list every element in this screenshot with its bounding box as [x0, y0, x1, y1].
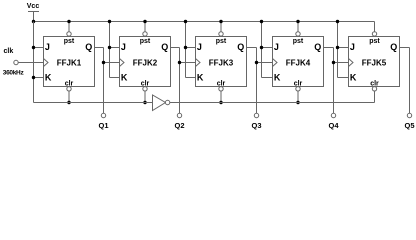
wire J input of FFJK1	[34, 47, 44, 49]
pin bubble clr of FFJK1	[67, 87, 71, 91]
flip-flop FFJK1	[44, 37, 95, 88]
wire Vcc top rail	[34, 21, 375, 23]
node Q2 output terminal	[174, 113, 184, 130]
wire J input of FFJK5	[338, 47, 349, 49]
svg-text:Q1: Q1	[98, 121, 108, 130]
flip-flop FFJK2	[120, 37, 171, 88]
junction clr rail at FFJK2	[143, 101, 146, 104]
pin bubble pst of FFJK4	[296, 32, 300, 36]
svg-text:J: J	[197, 42, 202, 52]
svg-text:J: J	[274, 42, 279, 52]
junction Q2 drop at clock branch	[178, 61, 181, 64]
junction top rail at FFJK4 tie	[260, 20, 263, 23]
pin bubble pst of FFJK2	[143, 32, 147, 36]
wire clr rail left segment	[34, 102, 153, 104]
junction Q3 drop at clock branch	[255, 61, 258, 64]
wire K input of FFJK1	[34, 77, 44, 79]
wire Vcc tie to J/K of FFJK2	[109, 22, 111, 78]
wire J input of FFJK4	[262, 47, 273, 49]
junction Vcc rail at FF1 tie	[32, 20, 35, 23]
pin bubble clr of FFJK4	[296, 87, 300, 91]
wire clr rail right segment	[170, 102, 375, 104]
svg-text:FFJK4: FFJK4	[286, 59, 311, 68]
junction tie at J of FFJK2	[108, 46, 111, 49]
wire clr stub of FFJK1	[68, 91, 70, 103]
wire J input of FFJK3	[186, 47, 196, 49]
wire Q output of FFJK4	[324, 48, 334, 114]
svg-text:K: K	[197, 73, 204, 83]
wire Vcc tie to J/K of FFJK5	[337, 22, 339, 78]
wire K input of FFJK4	[262, 77, 273, 79]
svg-text:Vcc: Vcc	[27, 3, 40, 10]
junction top rail at FFJK4 pst	[296, 20, 299, 23]
junction clr rail at FFJK4	[296, 101, 299, 104]
pin bubble clr of FFJK5	[372, 87, 376, 91]
junction Q4 drop at clock branch	[332, 61, 335, 64]
node clk input terminal	[3, 48, 25, 77]
wire Q3 to FFJK4 clock	[257, 62, 273, 64]
junction tie at J of FFJK5	[336, 46, 339, 49]
junction tie at K of FFJK1	[32, 76, 35, 79]
junction top rail at FFJK2 tie	[108, 20, 111, 23]
svg-text:J: J	[350, 42, 355, 52]
wire pst stub of FFJK5	[374, 22, 376, 32]
svg-text:clk: clk	[4, 48, 14, 55]
flip-flop FFJK3	[196, 37, 247, 88]
wire Q2 to FFJK3 clock	[180, 62, 196, 64]
pin bubble clr of FFJK3	[219, 87, 223, 91]
wire clr stub of FFJK2	[144, 91, 146, 103]
junction top rail at FFJK1 pst	[67, 20, 70, 23]
wire pst stub of FFJK4	[297, 22, 299, 32]
pin bubble pst of FFJK1	[67, 32, 71, 36]
svg-text:Q5: Q5	[404, 121, 414, 130]
junction top rail at FFJK3 tie	[184, 20, 187, 23]
pin bubble clr of FFJK2	[143, 87, 147, 91]
svg-text:J: J	[121, 42, 126, 52]
svg-text:pst: pst	[64, 38, 75, 45]
svg-text:K: K	[274, 73, 281, 83]
node Q5 output terminal	[404, 113, 414, 130]
wire pst stub of FFJK3	[220, 22, 222, 32]
wire Q output of FFJK2	[171, 48, 180, 114]
wire clr stub of FFJK3	[220, 91, 222, 103]
svg-text:Q: Q	[390, 42, 397, 52]
wire Q1 to FFJK2 clock	[104, 62, 120, 64]
svg-text:Q4: Q4	[328, 121, 339, 130]
junction top rail at FFJK2 pst	[143, 20, 146, 23]
svg-text:pst: pst	[140, 38, 151, 45]
junction tie at J of FFJK1	[32, 46, 35, 49]
power symbol Vcc	[27, 3, 40, 22]
wire clr stub of FFJK5	[374, 91, 376, 103]
svg-text:FFJK3: FFJK3	[209, 59, 234, 68]
wire K input of FFJK2	[110, 77, 120, 79]
wire Q output of FFJK3	[247, 48, 257, 114]
node Q1 output terminal	[98, 113, 108, 130]
junction top rail at FFJK5 tie	[336, 20, 339, 23]
pin bubble pst of FFJK5	[372, 32, 376, 36]
svg-text:Q2: Q2	[174, 121, 184, 130]
svg-text:pst: pst	[293, 38, 304, 45]
wire K input of FFJK3	[186, 77, 196, 79]
wire clk to FFJK1 clock	[18, 62, 43, 64]
svg-text:FFJK2: FFJK2	[133, 59, 158, 68]
wire K input of FFJK5	[338, 77, 349, 79]
svg-text:K: K	[350, 73, 357, 83]
svg-text:K: K	[121, 73, 128, 83]
junction Q1 drop at clock branch	[102, 61, 105, 64]
wire Vcc tie to J/K of FFJK3	[185, 22, 187, 78]
svg-text:pst: pst	[369, 38, 380, 45]
node Q4 output terminal	[328, 113, 339, 130]
svg-text:FFJK5: FFJK5	[362, 59, 387, 68]
svg-text:Q3: Q3	[251, 121, 261, 130]
wire pst stub of FFJK1	[68, 22, 70, 32]
svg-text:K: K	[45, 73, 52, 83]
svg-text:Q: Q	[161, 42, 168, 52]
wire pst stub of FFJK2	[144, 22, 146, 32]
junction tie at J of FFJK4	[260, 46, 263, 49]
wire J input of FFJK2	[110, 47, 120, 49]
wire Q output of FFJK1	[95, 48, 104, 114]
svg-text:Q: Q	[85, 42, 92, 52]
inverter U1	[153, 95, 170, 111]
pin bubble pst of FFJK3	[219, 32, 223, 36]
wire Q4 to FFJK5 clock	[334, 62, 349, 64]
svg-text:Q: Q	[237, 42, 244, 52]
svg-text:J: J	[45, 42, 50, 52]
junction clr rail at FFJK3	[219, 101, 222, 104]
junction top rail at FFJK3 pst	[219, 20, 222, 23]
wire clr stub of FFJK4	[297, 91, 299, 103]
node Q3 output terminal	[251, 113, 261, 130]
svg-text:FFJK1: FFJK1	[57, 59, 82, 68]
wire Vcc tie to J/K of FFJK1	[33, 22, 35, 103]
flip-flop FFJK5	[349, 37, 400, 88]
wire Vcc tie to J/K of FFJK4	[261, 22, 263, 78]
svg-text:pst: pst	[216, 38, 227, 45]
svg-text:360kHz: 360kHz	[3, 70, 25, 77]
flip-flop FFJK4	[273, 37, 324, 88]
wire Q output of FFJK5	[400, 48, 410, 114]
junction clr rail at FFJK1	[67, 101, 70, 104]
svg-text:Q: Q	[314, 42, 321, 52]
junction tie at J of FFJK3	[184, 46, 187, 49]
